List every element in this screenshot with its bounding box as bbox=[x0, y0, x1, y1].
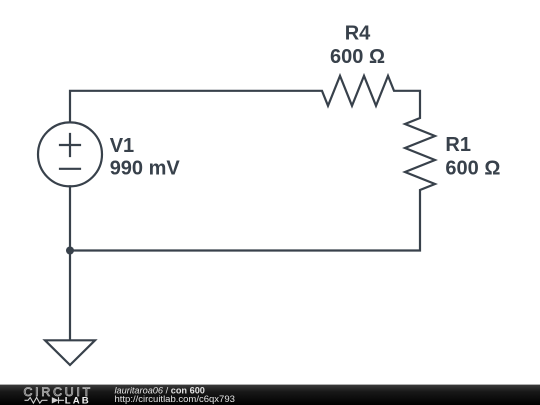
svg-text:http://circuitlab.com/c6qx793: http://circuitlab.com/c6qx793 bbox=[115, 394, 235, 405]
svg-text:LAB: LAB bbox=[65, 395, 91, 405]
svg-text:990 mV: 990 mV bbox=[110, 157, 181, 179]
svg-text:V1: V1 bbox=[110, 135, 134, 157]
svg-text:600 Ω: 600 Ω bbox=[330, 46, 385, 68]
svg-text:R4: R4 bbox=[345, 23, 371, 45]
svg-text:600 Ω: 600 Ω bbox=[445, 158, 500, 180]
svg-text:R1: R1 bbox=[445, 134, 471, 156]
